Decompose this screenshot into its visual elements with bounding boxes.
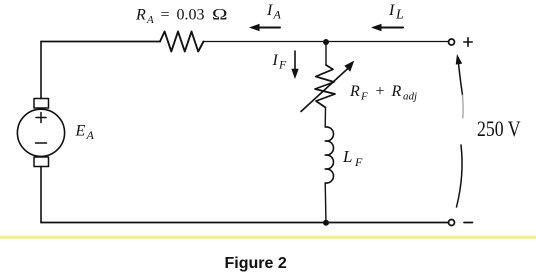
250V arc lower segment [457, 145, 463, 207]
svg-text:A: A [273, 8, 282, 22]
svg-text:250 V: 250 V [477, 116, 521, 141]
dc machine EA: bottom brush block [34, 157, 49, 167]
svg-text:R: R [349, 83, 360, 100]
junction node bottom [323, 220, 329, 226]
rheostat adjustment arrow [301, 67, 350, 112]
svg-text:I: I [388, 2, 395, 19]
bottom wire [41, 222, 448, 224]
svg-text:A: A [86, 128, 95, 142]
polarity plus inside machine [36, 113, 46, 123]
yellow separator line [0, 235, 536, 240]
resistor RA zigzag [160, 32, 204, 52]
field current arrow IF down [294, 51, 296, 75]
svg-text:I: I [272, 52, 279, 69]
svg-text:R: R [135, 7, 146, 24]
polarity minus inside machine [36, 142, 47, 144]
left rail wire down to bottom wire [40, 167, 42, 223]
terminal + (open circle top right) [449, 39, 455, 45]
plus sign at top terminal [464, 38, 472, 46]
svg-text:Ω: Ω [212, 7, 228, 24]
svg-text:A: A [146, 14, 154, 26]
wire top-left horizontal from left rail to resistor RA [41, 41, 160, 43]
wire top middle from resistor to junction [204, 41, 327, 43]
svg-text:=: = [161, 7, 170, 24]
svg-text:0.03: 0.03 [177, 7, 205, 24]
svg-text:F: F [278, 58, 287, 72]
left rail wire down to machine [40, 42, 42, 99]
svg-text:adj: adj [403, 91, 417, 103]
svg-text:F: F [354, 155, 363, 169]
rheostat RF+Radj zigzag [315, 65, 335, 108]
dc machine EA: armature circle [17, 109, 64, 156]
wire between rheostat and inductor [324, 108, 326, 128]
svg-text:R: R [391, 83, 402, 100]
svg-text:E: E [75, 123, 86, 140]
inductor LF coil [325, 127, 333, 183]
svg-text:+: + [376, 83, 385, 100]
minus sign at bottom terminal [464, 222, 473, 224]
svg-text:L: L [342, 147, 352, 166]
svg-text:L: L [395, 8, 404, 23]
wire from inductor to bottom junction [324, 183, 327, 223]
svg-text:Figure 2: Figure 2 [225, 255, 287, 272]
svg-text:F: F [360, 91, 368, 103]
terminal - (open circle bottom right) [449, 220, 455, 226]
svg-text:I: I [266, 2, 273, 19]
250V arc upper segment with arrowhead [458, 58, 463, 95]
field branch wire from top junction to rheostat [325, 42, 327, 65]
current arrow IA [252, 27, 280, 29]
current arrow IL [374, 27, 403, 29]
wire top right from junction to + terminal [326, 41, 448, 43]
junction node top [323, 39, 329, 45]
dc machine EA: top brush block [34, 99, 49, 109]
